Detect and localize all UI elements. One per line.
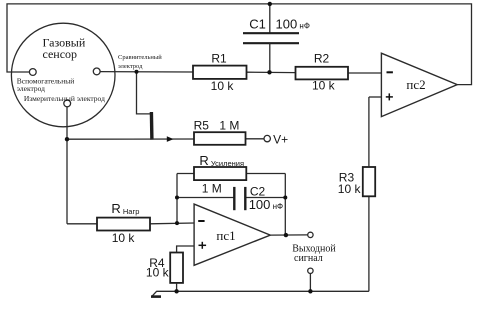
svg-text:10 k: 10 k (312, 79, 336, 93)
svg-text:1 M: 1 M (219, 118, 239, 132)
svg-text:сенсор: сенсор (43, 47, 78, 61)
svg-text:электрод: электрод (118, 63, 143, 70)
svg-text:R2: R2 (314, 52, 330, 66)
svg-text:10 k: 10 k (211, 79, 235, 93)
svg-text:C2: C2 (250, 184, 266, 198)
svg-text:пс1: пс1 (216, 228, 235, 243)
svg-text:сигнал: сигнал (294, 253, 323, 264)
svg-text:V+: V+ (273, 132, 288, 146)
svg-text:10 k: 10 k (112, 231, 136, 245)
svg-text:1 M: 1 M (202, 182, 222, 196)
svg-text:Измерительный электрод: Измерительный электрод (24, 94, 105, 103)
svg-text:Сравнительный: Сравнительный (118, 54, 162, 61)
svg-text:10 k: 10 k (338, 182, 362, 196)
svg-text:10 k: 10 k (146, 265, 170, 279)
svg-text:R1: R1 (211, 52, 227, 66)
svg-text:пс2: пс2 (406, 77, 425, 92)
svg-text:электрод: электрод (17, 84, 45, 93)
svg-text:C1: C1 (249, 16, 266, 31)
svg-text:R5: R5 (194, 118, 210, 132)
